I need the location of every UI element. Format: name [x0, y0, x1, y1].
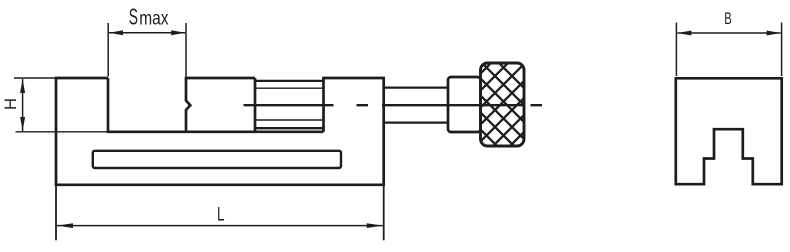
screw shaft bottom [384, 121, 448, 123]
H bottom arrow [20, 117, 25, 131]
base slot [93, 151, 341, 168]
screw thread OD bottom [255, 127, 324, 129]
fixed jaw top edge [55, 77, 108, 80]
B right arrow [767, 31, 781, 36]
vise body left face [55, 78, 58, 185]
svg-text:max: max [139, 9, 169, 30]
end view outline with open guide slot [676, 78, 782, 184]
svg-text:H: H [2, 98, 20, 110]
Smax right arrow [171, 30, 185, 35]
L right arrow [367, 223, 383, 228]
L dimension line [57, 225, 383, 227]
rear bracket top edge [322, 77, 385, 80]
svg-text:L: L [217, 203, 225, 225]
knob knurl crosshatch [394, 60, 613, 160]
B dimension line [677, 32, 780, 34]
base right face / bracket right face [382, 78, 385, 185]
L dimension extension lines [55, 186, 57, 240]
H dimension line [22, 79, 24, 131]
H top extension line [14, 77, 56, 79]
screw thread root bottom [255, 119, 324, 121]
Smax dimension line [109, 32, 185, 34]
H bottom extension line through jaw [16, 131, 109, 133]
moving jaw top edge [185, 77, 255, 80]
screw thread OD top [255, 80, 324, 82]
B dimension extension lines [675, 23, 677, 77]
screw shaft top [384, 86, 448, 88]
screw thread root top [255, 87, 324, 89]
screw collar [448, 77, 481, 132]
H top arrow [20, 79, 25, 93]
B left arrow [677, 31, 691, 36]
moving jaw left face with kink [186, 78, 190, 132]
fixed jaw right face [107, 78, 110, 132]
moving jaw right face [254, 78, 257, 132]
arrowheads [20, 30, 781, 228]
base bottom edge [55, 183, 385, 186]
Smax left arrow [109, 30, 123, 35]
ways top surface [107, 130, 324, 133]
svg-text:S: S [129, 4, 138, 30]
screw centerline [244, 104, 543, 106]
Smax dimension extension lines [107, 23, 109, 77]
knurled knob [481, 63, 525, 146]
svg-text:B: B [724, 9, 732, 28]
L left arrow [57, 223, 73, 228]
rear bracket left face [322, 78, 325, 132]
